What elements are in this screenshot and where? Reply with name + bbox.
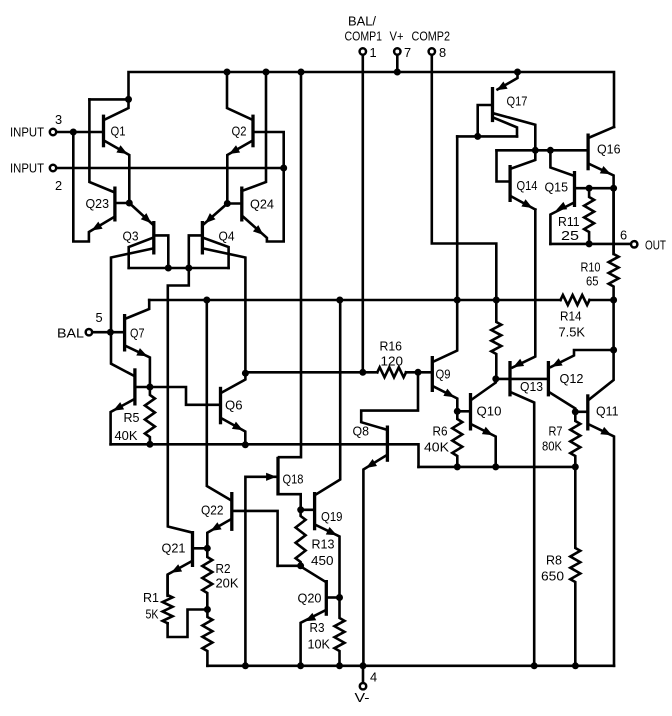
svg-text:Q12: Q12 (560, 371, 584, 386)
svg-text:Q1: Q1 (111, 124, 126, 139)
svg-text:R6: R6 (433, 424, 448, 439)
svg-text:Q21: Q21 (162, 541, 186, 556)
svg-text:Q7: Q7 (130, 326, 145, 341)
svg-text:R14: R14 (560, 309, 582, 324)
svg-text:5K: 5K (146, 607, 159, 622)
svg-text:Q2: Q2 (232, 124, 247, 139)
svg-text:R3: R3 (310, 620, 325, 635)
svg-text:COMP1: COMP1 (345, 29, 383, 44)
svg-text:3: 3 (55, 112, 62, 127)
svg-text:Q11: Q11 (596, 404, 619, 419)
svg-text:V+: V+ (390, 29, 404, 44)
svg-text:BAL/: BAL/ (348, 14, 376, 29)
svg-text:20K: 20K (216, 576, 239, 591)
svg-text:10K: 10K (308, 637, 331, 652)
svg-text:V-: V- (355, 690, 370, 705)
svg-text:65: 65 (586, 274, 599, 289)
svg-text:Q24: Q24 (250, 197, 274, 212)
svg-text:7: 7 (404, 45, 411, 60)
svg-text:Q23: Q23 (86, 196, 110, 211)
svg-text:R8: R8 (546, 553, 562, 568)
svg-text:R13: R13 (312, 537, 335, 552)
svg-text:Q20: Q20 (298, 591, 322, 606)
svg-text:450: 450 (311, 553, 334, 568)
svg-text:Q10: Q10 (477, 404, 502, 419)
svg-text:Q4: Q4 (219, 229, 235, 244)
svg-text:Q16: Q16 (597, 142, 621, 157)
svg-text:COMP2: COMP2 (412, 29, 451, 44)
svg-text:Q14: Q14 (517, 178, 538, 193)
svg-text:Q3: Q3 (123, 229, 139, 244)
svg-text:R2: R2 (216, 561, 231, 576)
svg-text:2: 2 (55, 178, 62, 193)
svg-text:INPUT: INPUT (10, 161, 44, 176)
svg-text:Q8: Q8 (353, 424, 370, 439)
svg-text:R16: R16 (380, 339, 403, 354)
svg-text:40K: 40K (115, 428, 138, 443)
svg-text:25: 25 (561, 228, 579, 243)
svg-text:Q6: Q6 (225, 398, 243, 413)
svg-text:Q15: Q15 (545, 180, 569, 195)
svg-text:650: 650 (541, 569, 564, 584)
svg-text:Q9: Q9 (436, 367, 451, 382)
svg-text:Q22: Q22 (201, 503, 224, 518)
svg-text:80K: 80K (542, 439, 562, 454)
svg-text:8: 8 (439, 45, 446, 60)
svg-text:4: 4 (370, 670, 377, 685)
svg-text:BAL: BAL (57, 326, 84, 341)
svg-text:R11: R11 (558, 214, 580, 229)
svg-text:40K: 40K (424, 440, 449, 455)
svg-text:R5: R5 (124, 410, 140, 425)
svg-text:R10: R10 (581, 260, 601, 275)
svg-text:Q13: Q13 (520, 379, 543, 394)
svg-text:Q18: Q18 (283, 472, 304, 487)
svg-text:INPUT: INPUT (10, 125, 44, 140)
svg-text:6: 6 (620, 228, 627, 243)
svg-text:OUT: OUT (645, 238, 666, 253)
svg-text:5: 5 (96, 310, 103, 325)
svg-text:Q19: Q19 (321, 509, 343, 524)
svg-text:120: 120 (381, 354, 404, 369)
svg-text:7.5K: 7.5K (559, 325, 586, 340)
svg-text:1: 1 (370, 45, 377, 60)
svg-text:R1: R1 (143, 590, 159, 605)
svg-text:R7: R7 (549, 424, 563, 439)
svg-text:Q17: Q17 (507, 94, 528, 109)
